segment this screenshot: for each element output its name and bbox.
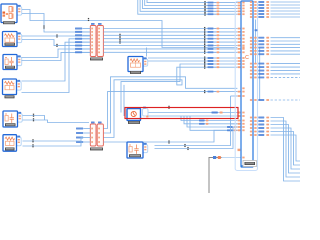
bus entry corner wires from top edge [138,0,238,14]
wire U2 output A [148,57,237,59]
pin number mark near connector bottom [238,149,241,151]
wire K3 pin1 up to RN1 [22,42,91,81]
wire U7 output B [155,127,238,149]
labels on rows 120.5 123.8 [199,120,240,125]
junction marker on U1 net [88,18,89,21]
descent wire to row 127 [187,116,237,127]
wire crystal branch b to row 84.9 [123,85,125,116]
net labels on RN1 left pins [75,28,82,54]
wire U5 pin1 short join [23,116,45,121]
connector right bus group C [250,63,300,79]
junction markers U7 nets [184,144,188,150]
labels on U2 nets [204,56,240,62]
wire K1 pin1 to RN1 [22,35,90,37]
wire RN2 row4 to upper connector pin [104,130,238,142]
wire U6 pin1 to RN2 [23,138,84,142]
junction markers U6 nets [32,139,33,147]
junction marker RN2 row4 [168,140,169,143]
wire K2 pin2 to RN1 [22,52,91,60]
relay block K3 [3,79,22,98]
bus wires RN1 to connector JC1 [104,29,238,53]
descent wire to row 123.8 [184,116,237,124]
descent wire to row 130.3 [190,116,237,130]
designator label RN1 [90,58,103,61]
wire Y1 output B [148,115,237,117]
wire RN2 row2 bridge over jogs [104,77,238,133]
wire RN2 row3 bridge over jogs [104,67,238,137]
wire into connector lower pin [222,157,242,159]
sensor block U6 [3,135,21,152]
gray wire from bottom to connector [209,156,222,193]
wire Y1 output A [148,112,237,114]
relay block K2 [3,55,22,70]
labels on rows 127 130.3 [227,126,240,131]
label on net row 91.6 [204,90,240,93]
descent wire to row 120.5 [181,116,237,121]
branch wire row 96 to connector [231,96,238,124]
wire U1 pin2 to RN1 pin row [22,14,90,33]
resistor network RN2 [90,122,103,147]
label on jog net row 64 [204,62,240,65]
driver block U2 [128,57,148,74]
connector pin numbers left column [242,2,244,159]
wire U1 pin1 long route to connector [22,10,237,48]
net labels on RN2 left pins [76,128,83,144]
wire U2 output B [148,60,237,62]
designator label RN2 [90,148,103,151]
connector JC1 selection glow [235,2,257,171]
RN2 left pin stubs [84,129,91,143]
designator label JC1 [243,161,257,167]
svg-text:C: C [245,55,249,61]
pin chip row 96 [238,95,241,97]
wire U2 up to long net [146,48,148,57]
net marker on branch wire [255,29,258,31]
wire RN2 row1 up to net row 91.6 [104,92,238,129]
connector right bus group A [250,1,300,18]
relay block K1 [3,32,22,47]
junction markers mid bus [119,34,120,44]
sensor block U5 [3,111,22,127]
junction markers on staircase rows [56,34,57,47]
isolator block U1 [1,4,22,24]
designator label Y1 [128,121,140,124]
no-ERC marker [43,25,44,28]
tick on selection row [168,106,169,109]
RN1 left pin stubs [83,29,91,53]
crystal component Y1 [127,107,148,121]
label on jog net row 67 [204,66,240,69]
net labels and pin numbers RN1 bus at JC1 [204,27,240,54]
selection highlight rectangle [125,108,238,119]
vertical branch wire right of connector [255,20,257,64]
wire U7 output A [155,124,238,146]
wire K1 pin2 staircase to RN1 [22,40,90,46]
labels on Y1 nets [212,111,241,117]
resistor network RN1 [90,23,103,57]
wire U6 pin2 to RN2 [23,142,84,146]
second vertical branch wire [259,48,261,100]
connector right bus group B [250,37,300,55]
connector right bus group D with corner bundle [250,117,300,181]
wire K3 pin2 up to RN1 [22,39,91,93]
dashed net row TX [250,99,300,101]
connector JC1 body [241,1,253,167]
wire U5 pin2 to RN2 top [23,120,90,123]
wire crystal branch up to jog row 64 [121,64,237,113]
net labels on top bus [204,1,240,16]
wire K2 pin1 to RN1 [22,49,91,58]
junction marker U5 net [33,114,34,117]
oscillator block U7 [127,142,148,158]
